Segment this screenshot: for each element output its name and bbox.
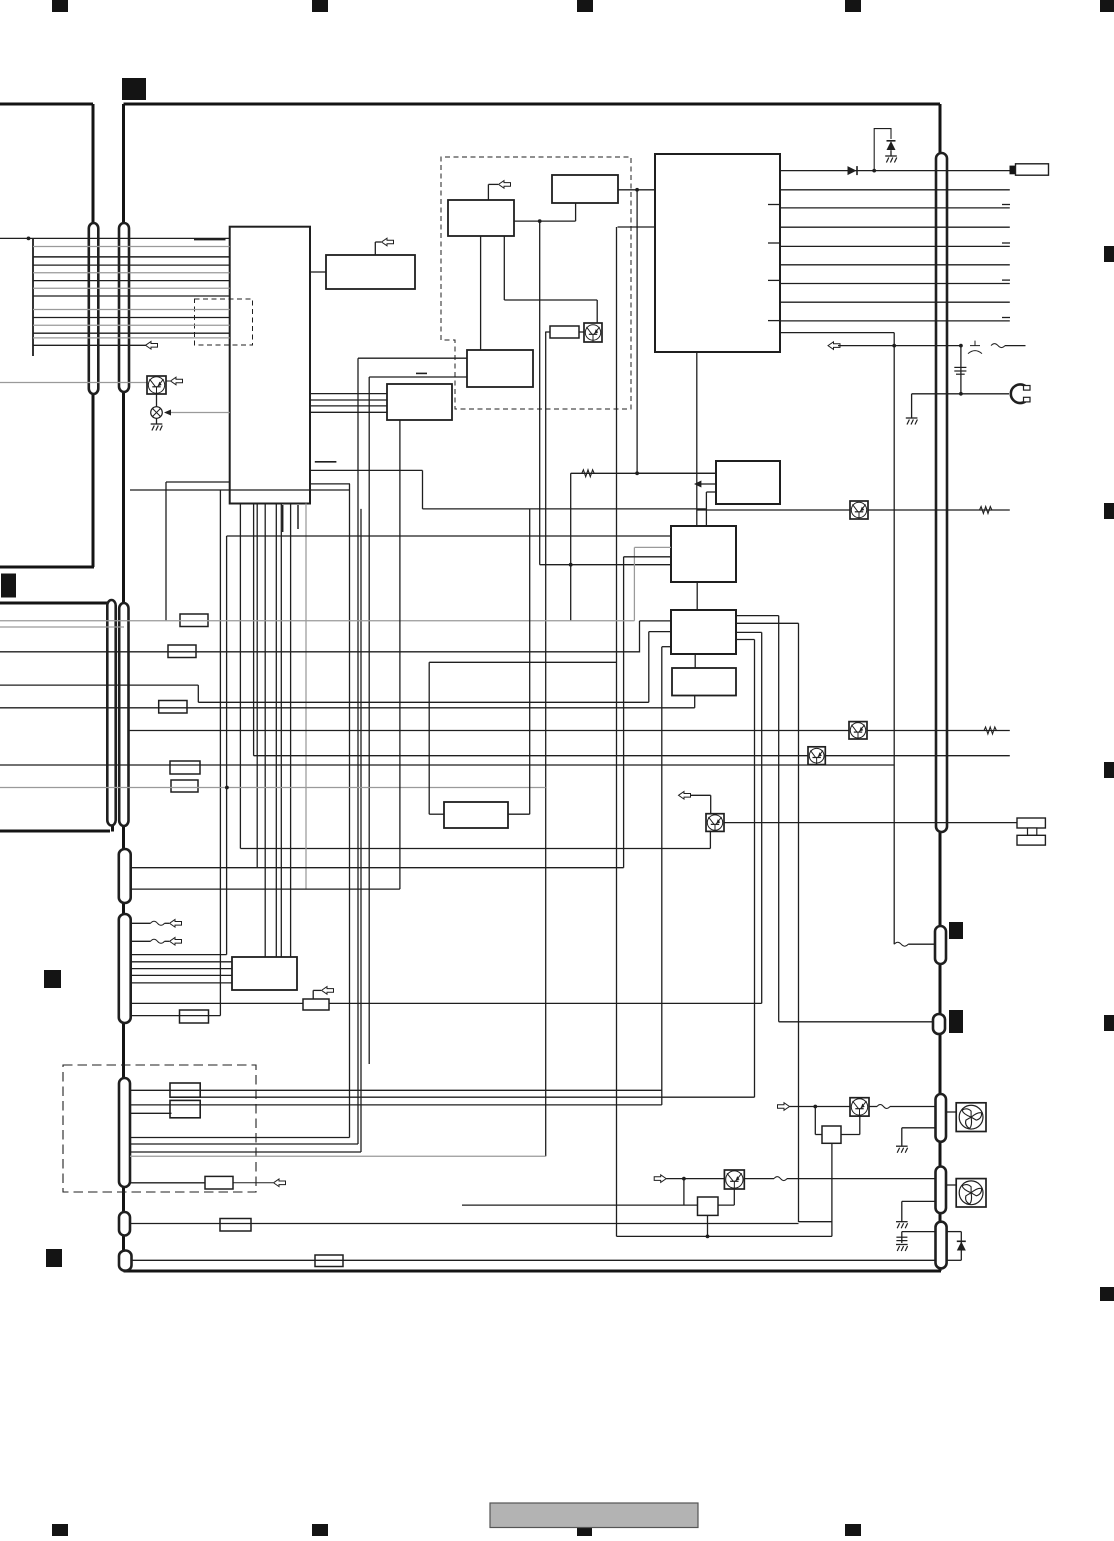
wire Q8 emitter to IC16 bbox=[733, 1189, 735, 1205]
ferrite bead squiggle bbox=[894, 942, 908, 946]
wire to phono terminal bbox=[912, 393, 1009, 395]
resistor R3 bbox=[159, 701, 187, 714]
IC7 display driver block bbox=[655, 154, 780, 352]
resistor R11 bbox=[220, 1219, 251, 1232]
connector CN9 bbox=[119, 1251, 132, 1271]
wire IC9 to IC10 bbox=[696, 582, 698, 610]
wire down-column D bbox=[368, 377, 370, 1064]
board outline E1 (upper-left enclosure) bbox=[0, 104, 94, 567]
wire row R4 bbox=[0, 764, 894, 766]
connector CN8 bbox=[119, 1212, 130, 1236]
wire IC1 left net bbox=[166, 481, 230, 483]
crop mark bottom center bbox=[577, 1521, 592, 1536]
IC5 block bbox=[467, 350, 533, 387]
wire gray row R1 bbox=[0, 620, 634, 622]
wire bus rows to IC1 bbox=[33, 238, 230, 338]
wire row y702 bbox=[198, 701, 649, 703]
wire CN13 ground bbox=[902, 1127, 936, 1129]
wire Q1 to lamp bbox=[156, 394, 158, 407]
transistor Q7 bbox=[850, 1098, 869, 1116]
resistor R6 bbox=[180, 1010, 209, 1023]
wire CN6 row3 bbox=[131, 954, 227, 956]
arrow terminal bbox=[146, 342, 158, 350]
arrow terminal bbox=[166, 380, 170, 382]
transistor Q6 rail bbox=[697, 509, 1010, 511]
wire CN15 cap-ground bbox=[902, 1231, 936, 1233]
resistor R9 bbox=[170, 1100, 200, 1117]
board outline E2 (lower-left enclosure) bbox=[0, 603, 113, 832]
wire IC12 output bbox=[508, 813, 530, 815]
connector CN12 bbox=[933, 1014, 945, 1034]
wire CN13 to fan M1 bbox=[946, 1111, 956, 1113]
resistor R4 bbox=[170, 761, 200, 774]
inductor squiggle bbox=[991, 344, 1005, 348]
wire IC9 left row bbox=[227, 535, 671, 537]
wire IC1 pin2 to Q3 rail bbox=[253, 504, 255, 756]
wire IC3 arrow stem bbox=[487, 184, 489, 200]
wire node down from IC3 net bbox=[539, 221, 541, 565]
wire R7 to Q2 bbox=[579, 331, 584, 333]
wire IC1 pin8 (gray) bbox=[305, 504, 307, 890]
transistor Q4 bbox=[706, 814, 724, 832]
wire R6 row bbox=[131, 1015, 221, 1017]
wire IC16 bottom bbox=[707, 1215, 709, 1236]
wire IC9 left row2 bbox=[624, 556, 671, 558]
zener diode D3 bbox=[887, 141, 896, 150]
wire riser to IC5 row1 bbox=[358, 357, 467, 359]
capacitor C2 bbox=[896, 1237, 907, 1240]
wire down-column B bbox=[357, 358, 359, 1144]
ground bbox=[151, 424, 163, 431]
wire Q5 rail bbox=[129, 730, 1010, 732]
wire lamp to IC1 with arrowhead bbox=[168, 412, 230, 414]
wire IC9 gray elbow bbox=[634, 546, 671, 548]
connector CN10 bbox=[936, 153, 947, 832]
wire CN14 ground bbox=[902, 1200, 936, 1202]
wire down-column C bbox=[360, 509, 362, 1152]
label strike mark 2 bbox=[416, 372, 427, 374]
wire gray row bbox=[130, 1155, 546, 1157]
resistor R7 bbox=[550, 326, 579, 338]
transistor Q6 bbox=[850, 501, 868, 519]
wire IC1 to IC6 rows bbox=[310, 394, 387, 413]
wire CN4 row to down-column bbox=[130, 489, 350, 491]
board outline main frame bbox=[124, 104, 942, 1271]
wire Q8 to CN14 bbox=[787, 1178, 936, 1180]
connector CN7 bbox=[119, 1078, 130, 1187]
dashed group outline (tuner section) bbox=[195, 299, 253, 345]
junction bbox=[959, 392, 963, 396]
wire R11 row (CN8) bbox=[130, 1223, 799, 1225]
wire IC1 pin6 to IC13 bbox=[280, 504, 282, 958]
IC11 block bbox=[672, 668, 736, 696]
wire cap branch bbox=[960, 346, 962, 394]
wire R12 row (CN9) bbox=[132, 1259, 936, 1261]
wire IC14 output bbox=[329, 1002, 762, 1004]
wire down-column E bbox=[226, 536, 228, 955]
wire CN6 rows into IC13 bbox=[131, 962, 232, 983]
IC1 main microcontroller block bbox=[230, 227, 310, 504]
wire CN14 to fan M2 bbox=[946, 1184, 956, 1186]
wire IC1 to IC2 bbox=[310, 271, 326, 273]
connector CN14 bbox=[936, 1167, 947, 1214]
wire IC3 bottom pin to Q2 bbox=[503, 236, 505, 300]
wire IC1 pin7 to IC13 bbox=[290, 504, 292, 958]
wire to IC16 bbox=[683, 1179, 685, 1206]
section mark bbox=[949, 1010, 963, 1033]
wire IC1 pin5 to IC13 bbox=[275, 504, 277, 958]
wire Q4 collector to plug bbox=[724, 822, 1017, 824]
label strike mark bbox=[194, 239, 226, 241]
wire IC7 bottom pin to IC9 bbox=[696, 352, 698, 526]
wire IC10 right rows bbox=[736, 615, 779, 617]
plug pair symbol bbox=[1017, 818, 1045, 845]
ground bbox=[896, 1222, 908, 1229]
IC7 pin tick marks bbox=[768, 205, 780, 321]
wire CN12 feed bbox=[779, 1021, 933, 1023]
bus vertical wire bbox=[32, 238, 34, 356]
wire IC7 output rows bbox=[780, 190, 1010, 321]
capacitor C1 bbox=[954, 367, 966, 374]
crop marks right edge bbox=[1100, 246, 1114, 1301]
wire arrow row bbox=[828, 342, 840, 350]
wire R9 row bbox=[130, 1104, 662, 1106]
IC14 block bbox=[303, 999, 329, 1010]
IC9 block bbox=[671, 526, 736, 582]
wire stub to ground bbox=[911, 394, 913, 418]
wire to IC15 bbox=[814, 1107, 816, 1135]
resistor R5 bbox=[171, 780, 198, 792]
wire Q4 base arrow bbox=[710, 795, 712, 813]
dashed group outline (option section) bbox=[63, 1065, 256, 1192]
wire Bx4 link bbox=[799, 1221, 832, 1223]
wire IC8 left to IC9 bbox=[706, 491, 716, 493]
dashed group outline (PLL section) bbox=[441, 157, 631, 409]
connector CN6 bbox=[119, 914, 131, 1023]
wire IC7 left elbow bbox=[618, 226, 656, 228]
wire fan1 input bbox=[790, 1106, 851, 1108]
section mark bbox=[44, 970, 61, 988]
wire Q4 emitter bbox=[709, 831, 711, 848]
wire R7 feed bbox=[545, 332, 547, 1156]
IC3 block bbox=[448, 200, 514, 236]
wire R10 row with arrow bbox=[130, 1182, 205, 1184]
wire long vertical to fan drivers bbox=[616, 227, 618, 1236]
IC4 block bbox=[552, 175, 618, 203]
lamp LP1 bbox=[151, 407, 163, 419]
wire Q3 rail bbox=[254, 755, 1010, 757]
filter cap symbol bbox=[968, 341, 982, 354]
wire IC2 arrow stem bbox=[374, 242, 376, 255]
IC16 block bbox=[698, 1197, 719, 1215]
row end tick marks bbox=[1002, 205, 1010, 318]
resistor R8 bbox=[170, 1083, 200, 1097]
resistor R15 zigzag bbox=[980, 507, 992, 514]
wire resistor row to IC8 bbox=[570, 473, 572, 620]
wire row to column A bbox=[130, 1137, 350, 1139]
bus stub wire into node bbox=[0, 237, 33, 239]
IC6 block bbox=[387, 384, 452, 420]
connector CN4 bbox=[119, 603, 128, 826]
wire IC10 to IC11 bbox=[694, 654, 696, 668]
wire IC3 to IC4 net bbox=[514, 220, 576, 222]
transistor Q8 bbox=[724, 1170, 744, 1189]
diode D1 bbox=[848, 166, 858, 175]
connector CN2 bbox=[119, 223, 129, 392]
connector CN1 bbox=[89, 223, 99, 394]
wire R8 row to IC10 column bbox=[130, 1089, 662, 1091]
transistor Q3 bbox=[808, 747, 825, 765]
wire IC1 down-column A bbox=[310, 483, 350, 485]
wire resistor row into IC8 bbox=[636, 472, 716, 474]
arrow input fan1 bbox=[778, 1103, 790, 1111]
wire step join bbox=[0, 684, 198, 686]
wire Q7 emitter to IC15 bbox=[859, 1116, 861, 1134]
section mark bbox=[1, 574, 16, 598]
wire gray row 2 bbox=[0, 626, 124, 628]
wire row to column C bbox=[130, 1151, 361, 1153]
wire Q7 to CN13 bbox=[890, 1106, 936, 1108]
wire IC14 arrow stem bbox=[312, 990, 314, 999]
wire IC12 feed bbox=[429, 661, 616, 663]
wire IC3 bottom pin to IC5 bbox=[480, 236, 482, 350]
wire IC10 left rows bbox=[640, 620, 672, 622]
wire IC4 to IC7 bbox=[618, 189, 655, 191]
wire fan rail bbox=[617, 1235, 832, 1237]
wire zener to ground bbox=[890, 150, 892, 156]
wire row R2 bbox=[0, 651, 640, 653]
wire R9 row2 bbox=[130, 1112, 172, 1114]
IC15 block bbox=[822, 1126, 841, 1143]
fan motor M1 bbox=[956, 1103, 986, 1132]
section mark bbox=[949, 922, 963, 939]
diode D2 loop on CN15 bbox=[947, 1231, 962, 1233]
wire fan2 input bbox=[666, 1178, 724, 1180]
transistor Q5 bbox=[849, 722, 867, 739]
wire gray row R5 bbox=[0, 787, 546, 789]
wire column to CN11 bbox=[893, 333, 895, 945]
crop marks top bbox=[52, 0, 1114, 12]
wire riser to IC5 row2 bbox=[369, 376, 467, 378]
resistor R12 bbox=[315, 1255, 343, 1267]
wire IC1 elbow net bbox=[310, 469, 423, 471]
wire CN5 row2 bbox=[131, 888, 400, 890]
phono terminal J2 bbox=[1011, 384, 1030, 403]
section mark bbox=[46, 1249, 62, 1267]
squiggle fan2 bbox=[744, 1178, 774, 1180]
connector CN11 bbox=[935, 926, 946, 964]
ground bbox=[906, 418, 918, 425]
junction bbox=[27, 237, 31, 241]
wire IC15 bottom bbox=[831, 1143, 833, 1236]
IC12 block bbox=[444, 802, 508, 828]
IC13 block bbox=[232, 957, 297, 990]
IC10 block bbox=[671, 610, 736, 654]
transistor Q2 bbox=[584, 323, 602, 342]
wire to Q1 bbox=[0, 382, 147, 384]
transistor Q1 bbox=[147, 376, 166, 394]
wire IC1 pin4 to IC13 bbox=[264, 504, 266, 958]
antenna jack J1 bbox=[1010, 164, 1049, 175]
connector CN5 bbox=[119, 849, 131, 903]
squiggle fan1 bbox=[869, 1106, 877, 1108]
connector CN3 bbox=[107, 600, 115, 826]
connector CN13 bbox=[936, 1094, 947, 1142]
wire IC1 pin3 bbox=[256, 504, 258, 868]
wire row with arrow bbox=[33, 344, 156, 346]
resistor R10 bbox=[205, 1176, 233, 1189]
section mark bbox=[122, 78, 146, 100]
ground bbox=[896, 1245, 908, 1252]
wire IC16 feed row bbox=[462, 1204, 698, 1206]
IC1 pin stubs bbox=[282, 505, 284, 532]
arrow tap on column bbox=[694, 481, 701, 488]
wire CN5 row1 to IC9 riser bbox=[131, 867, 624, 869]
wire IC7 top row with diode bbox=[780, 170, 1010, 172]
ground bbox=[896, 1146, 908, 1153]
connector CN15 bbox=[936, 1222, 947, 1269]
wire IC1 pin1 to Q4 emitter rail bbox=[239, 504, 241, 849]
wire IC11 bottom net bbox=[0, 707, 695, 709]
wire node down to net bbox=[636, 190, 638, 474]
footer label bar bbox=[490, 1503, 698, 1528]
IC8 block bbox=[716, 461, 780, 504]
wire squiggle arrow row2 bbox=[131, 940, 151, 942]
resistor R13 zigzag bbox=[582, 470, 594, 477]
resistor R2 bbox=[168, 645, 196, 658]
wire squiggle arrow row1 bbox=[131, 922, 151, 924]
resistor R1 bbox=[180, 614, 208, 627]
ground for lamp bbox=[156, 418, 158, 424]
arrow input fan2 bbox=[654, 1175, 666, 1183]
label strike mark bbox=[315, 461, 337, 463]
wire IC7 bottom row bbox=[780, 332, 894, 334]
wire CN6 row8 to IC14 bbox=[131, 1002, 303, 1004]
fan motor M2 bbox=[956, 1179, 986, 1207]
wire column join bbox=[200, 1096, 754, 1098]
ground bbox=[885, 156, 897, 163]
resistor R14 zigzag bbox=[984, 727, 996, 734]
junction bbox=[872, 169, 876, 173]
crop marks bottom bbox=[52, 1524, 861, 1536]
zener clamp net bbox=[874, 129, 891, 171]
wire row to column B bbox=[130, 1143, 358, 1145]
IC2 oscillator block bbox=[326, 255, 415, 289]
